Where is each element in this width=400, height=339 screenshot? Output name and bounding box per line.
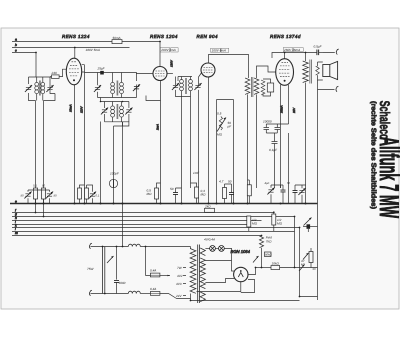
svg-text:110V: 110V: [80, 105, 84, 113]
wire IF2 drops: [182, 97, 191, 204]
chassis bus e: [10, 203, 318, 205]
speaker: [323, 65, 330, 77]
svg-text:Schaleco: Schaleco: [377, 101, 393, 140]
wire line g: [12, 216, 295, 218]
wire right edge vertical: [317, 204, 319, 301]
field coil Feld 7k: [261, 235, 263, 238]
bandfilter 2 upper cell: [98, 73, 137, 98]
svg-text:MΩ: MΩ: [277, 222, 283, 226]
electrolytic 100pF: [109, 179, 117, 187]
svg-text:0,1: 0,1: [96, 194, 100, 198]
svg-text:m: m: [15, 231, 18, 235]
wire drop from k to bottom: [300, 228, 318, 297]
svg-text:Allfunk 7 MW: Allfunk 7 MW: [374, 137, 400, 219]
wire bottom rail: [191, 299, 300, 301]
wire V3 loop: [217, 100, 234, 204]
potentiometer 0.5M: [219, 117, 222, 131]
coil L2: [42, 77, 44, 101]
tube V1 RENS 1224: [66, 58, 81, 85]
resistor 1/2M below g: [248, 216, 250, 218]
T5 core: [198, 245, 200, 304]
wire antenna drop f: [35, 101, 37, 213]
core lines: [38, 81, 41, 96]
svg-text:MΩ: MΩ: [217, 133, 223, 137]
choke bottom: [128, 291, 140, 293]
power transformer T5 primary: [190, 247, 192, 249]
output transformer T4: [305, 53, 307, 62]
svg-text:25pF: 25pF: [97, 67, 106, 71]
wire V1 cathode drop: [74, 85, 76, 204]
svg-text:kΩ: kΩ: [301, 263, 306, 267]
fuse 0.4A mid: [146, 247, 151, 276]
component group D: [155, 188, 159, 199]
wire V4 cathode drops: [281, 85, 289, 204]
resistor 2k on line f: [205, 208, 215, 212]
component group H: [247, 185, 251, 196]
wire speaker terminal: [318, 80, 335, 204]
svg-text:4V/0,4A: 4V/0,4A: [204, 238, 215, 242]
wire V2 bias loop: [146, 96, 161, 101]
svg-text:(rechte Seite des Schaltbildes: (rechte Seite des Schaltbildes): [370, 101, 378, 209]
trimmer V3 grid: [194, 83, 201, 90]
fuse 0.4A bottom: [150, 292, 160, 296]
wire bus a right: [122, 41, 160, 43]
svg-text:4µF: 4µF: [265, 181, 270, 185]
wire g drop: [294, 217, 296, 226]
wire heater to rectifier: [205, 261, 234, 283]
wire dc rail: [256, 267, 272, 269]
svg-text:50: 50: [21, 194, 25, 198]
component group E: [195, 187, 199, 198]
svg-text:10mA: 10mA: [69, 104, 73, 112]
svg-text:0,1µF: 0,1µF: [269, 148, 278, 152]
T5 secondary HT: [200, 258, 205, 276]
svg-text:4V2: 4V2: [177, 274, 183, 278]
rectifier tube RGN 1064: [234, 267, 248, 281]
svg-text:MΩ: MΩ: [201, 193, 207, 197]
snubber cap 5000: [116, 247, 118, 280]
wire bandfilter drops: [101, 122, 123, 204]
vertical small labels: [69, 59, 297, 131]
svg-text:130V: 130V: [170, 59, 174, 67]
svg-text:4,7: 4,7: [219, 180, 224, 184]
IF transformer T2: [178, 77, 192, 97]
wire line f: [12, 212, 274, 214]
svg-text:0,4A: 0,4A: [150, 287, 156, 291]
wire rectifier cathode loop: [241, 279, 255, 292]
svg-text:10kΩ: 10kΩ: [272, 262, 280, 266]
bus letters: [15, 38, 18, 235]
trimmer IF2: [172, 83, 179, 90]
pot arrow on rail: [299, 265, 305, 272]
svg-text:MΩ: MΩ: [252, 222, 258, 226]
wire line l: [12, 231, 295, 233]
svg-text:50: 50: [228, 180, 232, 184]
svg-text:0,4A: 0,4A: [150, 269, 156, 273]
tube V3 REN 824: [201, 63, 215, 77]
mains switch: [103, 247, 105, 294]
component group G: [223, 188, 227, 199]
wire V3 plate top: [209, 55, 249, 79]
capacitor grid V4: [267, 83, 273, 92]
wire mains bottom: [91, 293, 129, 295]
T4 secondary: [318, 62, 323, 80]
wire line m: [12, 235, 262, 237]
svg-text:0,1: 0,1: [33, 184, 37, 188]
trimmer C1: [25, 85, 32, 92]
T5 secondary lamp: [200, 292, 205, 302]
connector terminal: [336, 49, 338, 55]
mains connector bottom: [89, 290, 91, 296]
svg-text:100V 6mA: 100V 6mA: [212, 49, 226, 53]
svg-text:24V: 24V: [175, 294, 182, 298]
choke top: [128, 244, 140, 246]
svg-text:RENS 1374d: RENS 1374d: [270, 34, 301, 39]
svg-text:4V3: 4V3: [176, 282, 182, 286]
svg-text:50kΩ: 50kΩ: [265, 253, 273, 257]
wire bus b: [12, 47, 130, 49]
wire line i: [12, 224, 251, 226]
potentiometer volume: [303, 226, 318, 228]
wire loop right: [294, 226, 296, 268]
wire rectifier plate out: [248, 268, 256, 275]
wire V1 top to bus b: [74, 48, 76, 59]
svg-text:50: 50: [313, 267, 317, 271]
wire mains cap drop: [122, 204, 124, 247]
wire T3 secondary to V4: [257, 66, 276, 78]
svg-text:260V 16mA: 260V 16mA: [283, 48, 300, 52]
svg-text:240: 240: [51, 71, 57, 75]
svg-text:b: b: [15, 43, 17, 47]
fuse 50mA on bus a: [112, 40, 122, 44]
svg-text:RGN 1064: RGN 1064: [231, 249, 251, 254]
svg-text:0,5µF: 0,5µF: [314, 45, 323, 49]
component group J: [293, 191, 298, 193]
component group I: [267, 188, 274, 195]
wire bus c: [12, 53, 36, 78]
svg-text:10000: 10000: [263, 120, 272, 124]
svg-text:200V 2mA: 200V 2mA: [160, 48, 175, 52]
coil L1: [36, 77, 38, 101]
capacitor 0.5uF: [317, 50, 319, 56]
wire V2 plate: [167, 73, 173, 75]
svg-text:180V 5mA: 180V 5mA: [86, 48, 100, 52]
svg-text:100pF: 100pF: [110, 172, 120, 176]
svg-text:c: c: [15, 49, 17, 53]
svg-text:a: a: [15, 38, 17, 42]
AF transformer T3: [245, 78, 250, 94]
svg-text:50: 50: [170, 187, 174, 191]
svg-text:75W: 75W: [87, 267, 94, 271]
T5 winding top lamp: [200, 248, 205, 256]
wire T4 primary bottom drop: [305, 83, 307, 204]
component group A caps: [24, 192, 31, 199]
wire line k: [12, 227, 300, 229]
svg-text:50mA: 50mA: [113, 36, 121, 40]
capacitor 0.1uF: [272, 133, 278, 188]
wire V1 plate stubs: [82, 65, 85, 204]
small labels: [21, 36, 323, 298]
bandfilter 2 lower cell: [105, 102, 129, 122]
svg-text:REN 904: REN 904: [197, 34, 218, 39]
dial lamps: [205, 247, 209, 249]
wire coupling cells: [101, 98, 129, 127]
wire bus a: [12, 41, 112, 43]
grid resistor network V4: [261, 80, 265, 95]
wire antenna drop g: [43, 101, 45, 217]
svg-text:50: 50: [54, 194, 58, 198]
svg-text:0,5: 0,5: [217, 112, 222, 116]
svg-text:RENS 1204: RENS 1204: [150, 34, 178, 39]
mains connector top: [89, 243, 91, 249]
resistor 10k: [271, 266, 280, 270]
resistor 1/2M below f: [273, 212, 275, 215]
svg-text:25mA: 25mA: [280, 105, 284, 114]
winding tap arrows: [183, 268, 186, 296]
capacitor block 10000: [264, 124, 270, 133]
label boxes: [160, 48, 303, 53]
svg-text:RENS 1224: RENS 1224: [62, 34, 90, 39]
svg-text:7kΩ: 7kΩ: [266, 240, 272, 244]
wire V3 cathode drop: [208, 77, 210, 204]
wire V4 plate top line: [272, 53, 335, 59]
divider resistor 50k: [253, 256, 259, 263]
wire mains top: [91, 246, 129, 248]
wire V2 top riser: [159, 42, 161, 67]
trimmer C2: [46, 85, 53, 92]
svg-text:50: 50: [42, 184, 46, 188]
wire V2 cathode drop: [160, 81, 162, 204]
svg-text:2kΩ: 2kΩ: [204, 204, 211, 208]
wire grid to V2: [137, 73, 154, 74]
tube V2 RENS 1204: [153, 67, 167, 81]
svg-text:20V: 20V: [292, 107, 296, 114]
wire line h: [12, 220, 262, 222]
svg-text:e: e: [15, 199, 17, 203]
svg-text:5000: 5000: [119, 281, 126, 285]
component group B: [78, 188, 82, 199]
svg-text:2mA: 2mA: [155, 124, 159, 131]
svg-text:MΩ: MΩ: [147, 192, 153, 196]
wire rectifier bottom loop: [197, 282, 241, 292]
capacitor below pot: [307, 224, 311, 229]
resistor R1 240: [50, 76, 52, 78]
tube V4 RENS 1374d: [276, 59, 294, 86]
capacitor 25pF: [100, 71, 104, 75]
svg-text:50: 50: [287, 181, 291, 185]
resistor 47k vertical: [309, 252, 313, 263]
antenna bandfilter loop: [29, 77, 56, 101]
T5 secondary heater: [200, 277, 205, 289]
wire bandfilter top: [85, 72, 137, 74]
